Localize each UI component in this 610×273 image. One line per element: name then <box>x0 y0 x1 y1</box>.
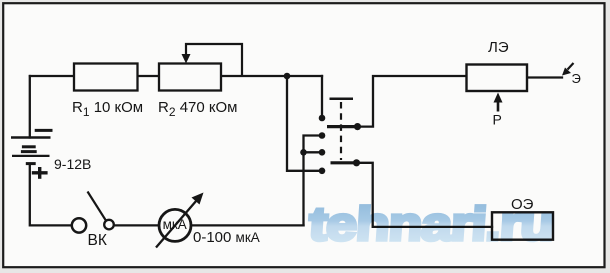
node junction on branch <box>300 149 307 156</box>
mechanical link dashed <box>340 102 342 160</box>
switch blade upper <box>327 125 358 128</box>
contact terminal upper-2 <box>319 132 326 139</box>
blade contact terminal upper <box>354 123 361 130</box>
wire from lower blade contact to element ОЭ <box>357 163 493 227</box>
svg-text:Р: Р <box>493 112 502 128</box>
contact terminal upper-1 <box>319 115 326 122</box>
wire from contact to common branch and down to meter line <box>304 136 323 226</box>
arrow Р pointing up at ЛЭ <box>494 93 503 112</box>
wire junction branch to lower group upper contact <box>304 151 319 153</box>
svg-text:Э: Э <box>572 71 581 86</box>
svg-text:9-12В: 9-12В <box>54 156 91 172</box>
electrode arrow Э <box>562 63 574 76</box>
contact terminal lower-1 <box>319 149 326 156</box>
resistor R2 potentiometer <box>159 64 221 91</box>
battery polarity + <box>32 167 48 179</box>
contact terminal lower-2 <box>319 168 326 175</box>
wire from R2 to switch contact column <box>221 75 322 77</box>
wire electrode lead from ЛЭ <box>527 76 562 78</box>
wire between R1 and R2 <box>138 75 160 77</box>
wire top-left from battery to R1 <box>30 75 74 77</box>
wire from microammeter to vertical riser <box>191 224 304 226</box>
wire branch from top node down to lower contact group <box>287 76 318 171</box>
blade contact terminal lower <box>353 159 360 166</box>
svg-text:ЛЭ: ЛЭ <box>488 39 509 56</box>
watermark tehnari.ru <box>307 197 555 250</box>
svg-text:ВК: ВК <box>88 232 107 249</box>
wire from switch ВК to microammeter <box>114 224 159 226</box>
microammeter adjust arrow <box>156 193 204 248</box>
wire from upper blade contact to lamp element ЛЭ <box>358 76 467 127</box>
svg-text:0-100 мкА: 0-100 мкА <box>193 229 260 246</box>
switch blade lower <box>331 161 357 164</box>
svg-text:tehnari.ru: tehnari.ru <box>307 197 555 250</box>
element ОЭ <box>492 212 553 239</box>
wire battery negative lead down and to switch ВК <box>30 164 72 225</box>
microammeter <box>159 209 191 241</box>
resistor R1 <box>74 64 138 91</box>
wire down to upper fixed contact <box>321 76 323 114</box>
battery GB <box>11 130 53 163</box>
pushbutton actuator bar <box>330 97 354 100</box>
lamp element ЛЭ <box>467 65 528 92</box>
switch ВК <box>72 192 114 233</box>
node junction at top wire <box>284 73 291 80</box>
wire battery positive lead down <box>29 76 31 138</box>
potentiometer wiper arrow and return wire <box>182 44 243 76</box>
